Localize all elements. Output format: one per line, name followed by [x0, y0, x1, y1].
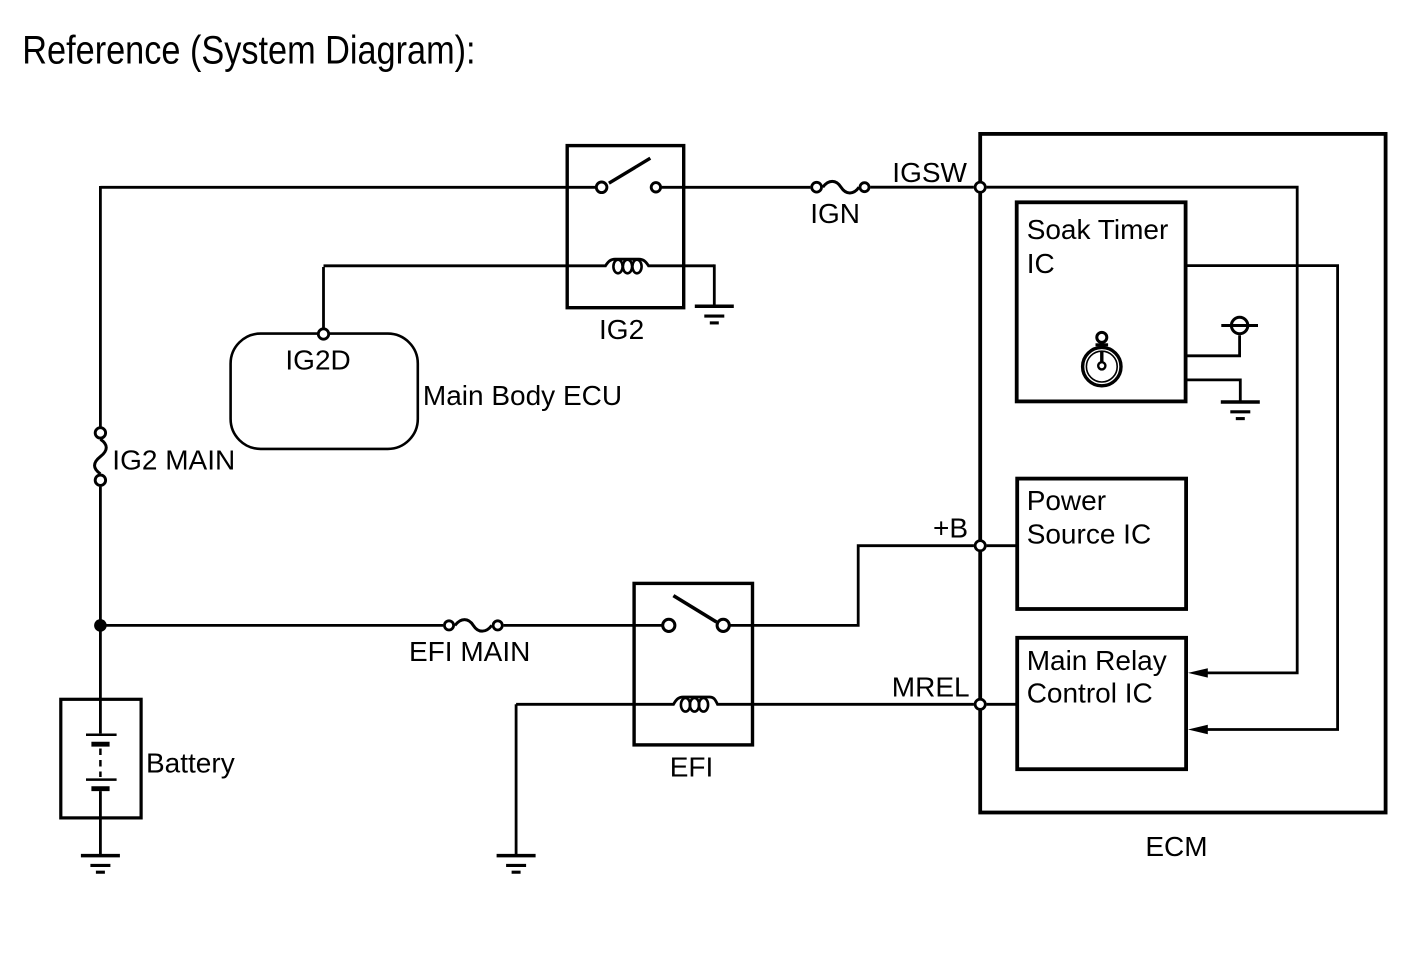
EFI relay coil	[516, 697, 974, 712]
arrow into Main Relay Control IC (from Soak Timer)	[1188, 725, 1208, 734]
svg-text:MREL: MREL	[892, 672, 970, 703]
oscillator symbol (circle with bar)	[1221, 317, 1258, 333]
svg-text:Source IC: Source IC	[1027, 519, 1152, 550]
junction node battery / EFI MAIN	[94, 619, 107, 632]
IG2 relay coil	[324, 259, 715, 273]
wire IG2 switch to IGN fuse	[662, 186, 811, 189]
svg-text:EFI: EFI	[670, 752, 714, 783]
svg-text:Control IC: Control IC	[1027, 678, 1153, 709]
node IG2D	[318, 329, 328, 339]
svg-text:Main Relay: Main Relay	[1027, 645, 1167, 676]
wire Soak Timer to ground	[1186, 380, 1241, 402]
fuse IG2 MAIN	[95, 428, 107, 486]
svg-text:Main Body ECU: Main Body ECU	[423, 380, 622, 411]
svg-text:IC: IC	[1027, 248, 1055, 279]
ground battery	[81, 818, 120, 872]
EFI switch contact right	[717, 619, 729, 631]
fuse IGN	[812, 181, 869, 193]
IG2 switch blade	[609, 158, 650, 183]
svg-text:IG2: IG2	[599, 314, 644, 345]
wire IGSW to Main Relay Control IC	[987, 187, 1298, 673]
svg-text:Soak Timer: Soak Timer	[1027, 214, 1169, 245]
svg-text:+B: +B	[933, 513, 968, 544]
svg-text:IGSW: IGSW	[892, 157, 967, 188]
IG2 switch contact left	[596, 182, 607, 193]
wire IG2 MAIN fuse to battery	[99, 487, 102, 701]
svg-text:IGN: IGN	[810, 198, 860, 229]
node +B	[975, 541, 985, 551]
EFI switch contact left	[663, 619, 675, 631]
Soak Timer IC box	[1017, 202, 1186, 401]
Main Body ECU box	[231, 334, 418, 449]
wire MREL node to Main Relay Control IC	[987, 703, 1018, 706]
ground IG2 relay coil	[695, 306, 734, 323]
svg-text:Power: Power	[1027, 485, 1106, 516]
arrow into Main Relay Control IC (from IGSW)	[1188, 668, 1208, 677]
ground soak timer	[1221, 402, 1260, 419]
wire left vertical down to IG2 MAIN fuse	[99, 186, 102, 427]
wire EFI MAIN fuse to EFI relay switch	[504, 624, 663, 627]
relay IG2 box	[567, 146, 684, 308]
wire junction to EFI MAIN fuse	[100, 624, 443, 627]
wire +B node to Power Source IC	[987, 544, 1018, 547]
node MREL	[975, 699, 985, 709]
wire Soak Timer to Main Relay Control IC	[1186, 266, 1338, 730]
svg-text:IG2 MAIN: IG2 MAIN	[112, 445, 235, 476]
fuse EFI MAIN	[444, 620, 502, 632]
ground EFI relay coil	[497, 704, 536, 872]
svg-text:EFI MAIN: EFI MAIN	[409, 636, 530, 667]
svg-text:ECM: ECM	[1145, 831, 1207, 862]
wire IG2 coil to IG2D node	[322, 267, 325, 328]
svg-text:Reference (System Diagram):: Reference (System Diagram):	[22, 28, 475, 72]
wire IG2 coil to ground	[713, 264, 716, 306]
battery	[61, 699, 141, 818]
wire Soak Timer to oscillator symbol	[1186, 335, 1240, 356]
node IGSW	[975, 182, 985, 192]
wire battery branch to IG2 relay switch (top horizontal)	[100, 186, 595, 189]
Power Source IC box	[1017, 479, 1186, 609]
wire EFI switch to +B node	[729, 546, 974, 626]
IG2 switch contact right	[651, 183, 660, 192]
svg-text:IG2D: IG2D	[285, 344, 350, 375]
EFI switch blade	[673, 596, 716, 622]
svg-text:Battery: Battery	[146, 748, 235, 779]
soak timer stopwatch icon	[1083, 332, 1121, 385]
Main Relay Control IC box	[1017, 638, 1186, 769]
relay EFI box	[634, 583, 752, 745]
ECM box	[980, 134, 1385, 813]
wire IGN fuse to IGSW node	[870, 186, 974, 189]
